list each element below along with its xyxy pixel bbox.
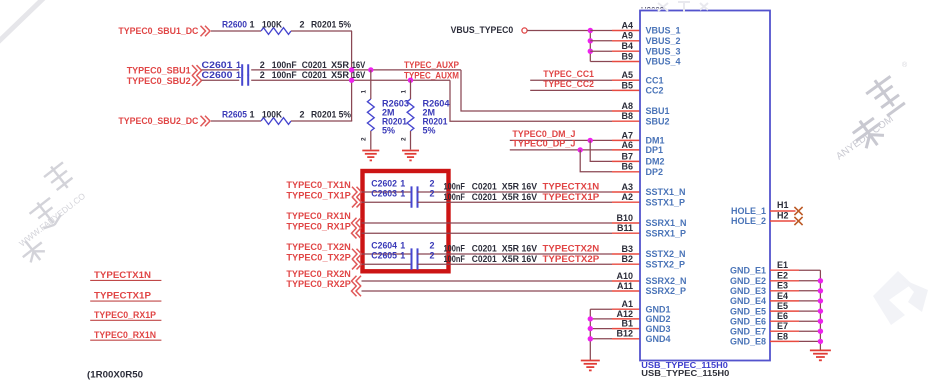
- svg-text:E2: E2: [777, 271, 788, 281]
- svg-text:E5: E5: [777, 301, 788, 311]
- svg-text:VBUS_TYPEC0: VBUS_TYPEC0: [451, 25, 514, 35]
- svg-text:A11: A11: [617, 281, 633, 291]
- ground under R2604: [402, 150, 419, 152]
- pin stub H1 HOLE_1: [770, 210, 796, 212]
- svg-text:100nF: 100nF: [444, 254, 466, 264]
- wire pin B9: [590, 61, 612, 63]
- svg-text:TYPEC0_RX1N: TYPEC0_RX1N: [94, 330, 156, 340]
- wire R2603 from AUX row: [370, 70, 372, 99]
- wire pin B4: [590, 50, 612, 52]
- wire DM to DM2: [590, 140, 612, 161]
- pin stub A5 CC1: [612, 79, 640, 81]
- svg-text:E1: E1: [777, 260, 788, 270]
- svg-text:SSTX1_N: SSTX1_N: [646, 187, 686, 197]
- wire TYPEC_AUXM to SBU2 pin: [450, 80, 612, 121]
- svg-text:B1: B1: [621, 319, 633, 329]
- pin stub H2 HOLE_2: [770, 220, 796, 222]
- pin stub B9 VBUS_4: [612, 61, 640, 63]
- junction AUXP R2600: [349, 67, 354, 72]
- pin stub E6 GND_E6: [770, 320, 799, 322]
- svg-text:2: 2: [430, 240, 435, 250]
- capacitor C2602: [412, 186, 418, 197]
- svg-text:TYPEC_CC1: TYPEC_CC1: [543, 69, 594, 79]
- svg-text:2: 2: [430, 189, 435, 199]
- highlight box around TX capacitors: [363, 171, 449, 271]
- svg-text:2: 2: [300, 19, 305, 29]
- svg-text:X5R: X5R: [502, 244, 520, 254]
- svg-text:GND_E2: GND_E2: [730, 276, 766, 286]
- svg-text:(1R00X0R50: (1R00X0R50: [87, 369, 143, 379]
- svg-text:SSTX1_P: SSTX1_P: [646, 197, 686, 207]
- refdes U2600 clipped at top: [641, 6, 664, 16]
- resistor R2604: [407, 99, 414, 131]
- svg-text:TYPEC0_RX1N: TYPEC0_RX1N: [286, 211, 350, 221]
- svg-text:B4: B4: [621, 41, 633, 51]
- svg-text:X5R: X5R: [502, 254, 520, 264]
- svg-text:X5R: X5R: [331, 60, 350, 70]
- svg-text:SSRX2_N: SSRX2_N: [646, 276, 687, 286]
- wire TYPEC0_RX1N to pin B10: [362, 222, 613, 224]
- pin stub E3 GND_E3: [770, 290, 799, 292]
- GND bus vertical left: [589, 309, 591, 360]
- svg-text:1: 1: [400, 178, 405, 188]
- capacitor C2601: [242, 64, 248, 75]
- svg-text:TYPECTX1N: TYPECTX1N: [543, 182, 600, 192]
- svg-text:B10: B10: [616, 213, 633, 223]
- watermark traces top: [658, 1, 708, 12]
- svg-text:2: 2: [260, 70, 265, 80]
- pin stub A2 SSTX1_P: [612, 201, 640, 203]
- wire C2601 to TYPEC_AUXP: [251, 69, 461, 71]
- svg-text:1: 1: [250, 109, 255, 119]
- wire TYPEC0_RX1P to pin B11: [362, 232, 613, 234]
- svg-text:E6: E6: [777, 311, 788, 321]
- svg-text:C0201: C0201: [472, 192, 497, 202]
- svg-text:GND_E5: GND_E5: [730, 306, 766, 316]
- junction GND_E5: [818, 308, 823, 313]
- svg-text:GND_E8: GND_E8: [730, 337, 766, 347]
- svg-text:A6: A6: [621, 140, 633, 150]
- svg-text:B8: B8: [621, 111, 633, 121]
- svg-text:1: 1: [361, 90, 368, 94]
- wire TYPEC_CC1: [530, 79, 612, 81]
- svg-text:GND3: GND3: [646, 324, 671, 334]
- junction GND_E2: [818, 278, 823, 283]
- svg-text:SSTX2_P: SSTX2_P: [646, 259, 686, 269]
- no-connect X H1: [794, 207, 802, 215]
- svg-text:100nF: 100nF: [444, 182, 466, 192]
- svg-text:C2604: C2604: [371, 240, 397, 250]
- svg-text:GND_E1: GND_E1: [730, 265, 766, 275]
- svg-text:SSRX2_P: SSRX2_P: [646, 286, 687, 296]
- svg-text:SSRX1_N: SSRX1_N: [646, 218, 687, 228]
- svg-text:A8: A8: [621, 101, 633, 111]
- svg-text:VBUS_4: VBUS_4: [646, 57, 681, 67]
- svg-text:100K: 100K: [262, 19, 282, 29]
- svg-text:VBUS_2: VBUS_2: [646, 36, 681, 46]
- pin stub B6 DP2: [612, 171, 640, 173]
- junction AUXM R2604: [408, 78, 413, 83]
- svg-text:C0201: C0201: [472, 182, 497, 192]
- svg-text:16V: 16V: [522, 182, 538, 192]
- svg-text:TYPECTX2N: TYPECTX2N: [543, 244, 600, 254]
- pin stub B7 DM2: [612, 160, 640, 162]
- VBUS bus vertical: [589, 31, 591, 62]
- wire R2604 from AUX row: [410, 80, 412, 99]
- pin stub A4 VBUS_1: [612, 30, 640, 32]
- wire E6 to bus: [799, 320, 820, 322]
- wire TYPEC0_TX1P to C2603: [362, 201, 412, 203]
- junction GND_E7: [818, 329, 823, 334]
- svg-text:A12: A12: [616, 309, 633, 319]
- wire C2604 to pin B3: [418, 253, 613, 255]
- svg-text:X5R: X5R: [502, 182, 520, 192]
- pin stub E4 GND_E4: [770, 300, 799, 302]
- svg-text:1: 1: [400, 251, 405, 261]
- wire C2605 to pin B2: [418, 263, 613, 265]
- pin stub A1 GND1: [612, 308, 640, 310]
- no-connect X H2: [794, 217, 802, 225]
- svg-text:C0201: C0201: [472, 244, 497, 254]
- svg-text:2: 2: [300, 109, 305, 119]
- port circle VBUS_TYPEC0: [522, 28, 527, 33]
- junction GND2: [588, 316, 593, 321]
- pin stub A3 SSTX1_N: [612, 191, 640, 193]
- wire TYPEC0_SBU1 to C2601: [202, 69, 240, 71]
- svg-text:DM1: DM1: [646, 136, 665, 146]
- svg-text:A7: A7: [621, 130, 633, 140]
- svg-text:5%: 5%: [423, 126, 436, 136]
- wire E2 to bus: [799, 280, 820, 282]
- svg-text:HOLE_2: HOLE_2: [731, 216, 766, 226]
- svg-text:SBU1: SBU1: [646, 106, 670, 116]
- pin stub A6 DP1: [612, 149, 640, 151]
- svg-text:B9: B9: [621, 51, 633, 61]
- wire C2600 to TYPEC_AUXM: [251, 79, 450, 81]
- svg-text:VBUS_3: VBUS_3: [646, 46, 681, 56]
- wire TYPEC0_SBU2_DC to R2605: [211, 120, 261, 122]
- svg-text:E3: E3: [777, 281, 788, 291]
- svg-text:DP2: DP2: [646, 167, 664, 177]
- pin stub A9 VBUS_2: [612, 40, 640, 42]
- svg-text:TYPEC0_TX2P: TYPEC0_TX2P: [286, 252, 350, 262]
- svg-text:1: 1: [236, 70, 241, 80]
- svg-text:2: 2: [430, 251, 435, 261]
- wire pin A4: [590, 30, 612, 32]
- port chevron TYPEC0_SBU2: [192, 75, 202, 86]
- svg-text:C0201: C0201: [302, 70, 327, 80]
- svg-text:A9: A9: [621, 31, 633, 41]
- wire VBUS_TYPEC0 to bus: [527, 30, 590, 32]
- wire E1 to bus: [799, 269, 820, 271]
- svg-text:X5R: X5R: [502, 192, 520, 202]
- svg-text:TYPECTX1P: TYPECTX1P: [543, 192, 600, 202]
- svg-text:C2600: C2600: [202, 70, 233, 80]
- watermark chinese characters right: [834, 71, 919, 153]
- svg-text:TYPEC0_TX1N: TYPEC0_TX1N: [286, 180, 350, 190]
- wire TYPEC0_TX1N to C2602: [362, 191, 412, 193]
- svg-text:C2602: C2602: [371, 178, 397, 188]
- svg-text:GND_E4: GND_E4: [730, 296, 766, 306]
- junction GND_E4: [818, 298, 823, 303]
- svg-text:GND4: GND4: [646, 334, 671, 344]
- svg-text:HOLE_1: HOLE_1: [731, 206, 766, 216]
- svg-text:A1: A1: [621, 299, 633, 309]
- underline TYPEC0_RX1N: [90, 339, 161, 341]
- capacitor C2605: [412, 259, 418, 270]
- wire R2600 to AUX junction: [291, 30, 352, 32]
- svg-text:R0201 5%: R0201 5%: [311, 19, 351, 29]
- svg-text:2: 2: [361, 137, 368, 141]
- svg-text:B5: B5: [621, 80, 633, 90]
- wire TYPEC0_TX2P to C2605: [362, 263, 412, 265]
- svg-text:2: 2: [400, 137, 407, 141]
- GND_E bus vertical right: [819, 270, 821, 349]
- svg-text:C2605: C2605: [371, 251, 397, 261]
- svg-text:R0201 5%: R0201 5%: [311, 109, 351, 119]
- svg-text:100nF: 100nF: [272, 60, 297, 70]
- resistor R2603: [367, 99, 374, 131]
- svg-text:TYPEC0_SBU1_DC: TYPEC0_SBU1_DC: [118, 26, 198, 36]
- wire C2603 to pin A2: [418, 201, 613, 203]
- svg-text:SBU2: SBU2: [646, 116, 670, 126]
- pin stub A7 DM1: [612, 139, 640, 141]
- svg-text:C0201: C0201: [472, 254, 497, 264]
- pin stub B8 SBU2: [612, 120, 640, 122]
- svg-text:TYPEC0_SBU2: TYPEC0_SBU2: [127, 76, 191, 86]
- port chevron TYPEC0_TX2N: [352, 249, 362, 260]
- junction VBUS_2: [588, 38, 593, 43]
- underline TYPEC0_RX1P: [90, 319, 161, 321]
- pin stub E8 GND_E8: [770, 340, 799, 342]
- svg-text:TYPEC0_RX1P: TYPEC0_RX1P: [286, 221, 350, 231]
- wire TYPEC0_TX2N to C2604: [362, 253, 412, 255]
- pin stub E2 GND_E2: [770, 280, 799, 282]
- junction AUXM R2605: [349, 78, 354, 83]
- svg-text:16V: 16V: [522, 244, 538, 254]
- ground symbol right: [810, 349, 831, 351]
- svg-text:TYPEC0_RX2N: TYPEC0_RX2N: [286, 269, 350, 279]
- pin stub B3 SSTX2_N: [612, 253, 640, 255]
- svg-text:1: 1: [400, 189, 405, 199]
- svg-text:R2605: R2605: [222, 109, 247, 119]
- svg-text:TYPECTX1P: TYPECTX1P: [94, 291, 151, 301]
- wire E3 to bus: [799, 290, 820, 292]
- svg-text:2: 2: [430, 178, 435, 188]
- svg-text:TYPEC0_TX1P: TYPEC0_TX1P: [286, 190, 350, 200]
- watermark logo bottom-right: [873, 271, 928, 325]
- watermark diagonal streak top-left: [0, 0, 50, 46]
- svg-text:H1: H1: [777, 200, 789, 210]
- svg-text:A4: A4: [621, 20, 633, 30]
- port chevron TYPEC0_SBU1: [192, 65, 202, 76]
- pin stub B12 GND4: [612, 338, 640, 340]
- svg-text:E8: E8: [777, 331, 788, 341]
- svg-text:CC2: CC2: [646, 86, 664, 96]
- svg-text:GND_E7: GND_E7: [730, 326, 766, 336]
- svg-text:1: 1: [400, 240, 405, 250]
- svg-text:C0201: C0201: [302, 60, 327, 70]
- junction DM: [588, 138, 593, 143]
- svg-text:B2: B2: [621, 254, 633, 264]
- capacitor C2604: [412, 248, 418, 259]
- svg-text:100nF: 100nF: [444, 192, 466, 202]
- wire TYPEC0_DM_J: [510, 139, 612, 141]
- svg-text:A5: A5: [621, 70, 633, 80]
- svg-text:H2: H2: [777, 210, 789, 220]
- pin stub E7 GND_E7: [770, 330, 799, 332]
- port chevron TYPEC0_RX1P: [352, 228, 362, 239]
- pin stub B2 SSTX2_P: [612, 263, 640, 265]
- svg-text:TYPEC0_DP_J: TYPEC0_DP_J: [512, 139, 575, 149]
- watermark chinese characters left: [0, 159, 102, 267]
- wire R2603 to ground: [370, 131, 372, 150]
- svg-text:B6: B6: [621, 162, 633, 172]
- svg-text:TYPEC_AUXP: TYPEC_AUXP: [404, 60, 459, 70]
- svg-text:C2603: C2603: [371, 189, 397, 199]
- svg-text:R2600: R2600: [222, 19, 247, 29]
- wire pin A9: [590, 40, 612, 42]
- svg-text:ANYEDU.COM: ANYEDU.COM: [834, 114, 895, 163]
- svg-text:16V: 16V: [522, 192, 538, 202]
- svg-text:TYPEC_CC2: TYPEC_CC2: [543, 79, 594, 89]
- svg-text:5%: 5%: [382, 126, 395, 136]
- svg-text:CC1: CC1: [646, 75, 664, 85]
- underline TYPECTX1N: [90, 279, 161, 281]
- svg-text:100nF: 100nF: [272, 70, 297, 80]
- svg-text:1: 1: [236, 60, 241, 70]
- svg-text:100K: 100K: [262, 109, 282, 119]
- capacitor C2600: [242, 75, 248, 86]
- svg-text:B12: B12: [616, 329, 633, 339]
- svg-text:TYPEC0_RX1P: TYPEC0_RX1P: [94, 310, 156, 320]
- wire TYPEC_CC2: [530, 89, 612, 91]
- ground under R2603: [362, 150, 379, 152]
- svg-text:B7: B7: [621, 151, 633, 161]
- wire vertical R2600/R2605 to AUXP AUXM: [351, 31, 353, 121]
- svg-text:WWW.FANYEDU.CO: WWW.FANYEDU.CO: [17, 190, 87, 248]
- port chevron TYPEC0_TX1N: [352, 187, 362, 198]
- capacitor C2603: [412, 197, 418, 208]
- svg-text:1: 1: [250, 19, 255, 29]
- port chevron TYPEC0_TX2P: [352, 259, 362, 270]
- junction GND_E6: [818, 319, 823, 324]
- svg-text:E7: E7: [777, 321, 788, 331]
- pin stub A11 SSRX2_P: [612, 290, 640, 292]
- pin stub B10 SSRX1_N: [612, 222, 640, 224]
- port chevron TYPEC0_TX1P: [352, 197, 362, 208]
- svg-text:USB_TYPEC_115H0: USB_TYPEC_115H0: [641, 369, 730, 378]
- svg-text:VBUS_1: VBUS_1: [646, 26, 681, 36]
- svg-text:DP1: DP1: [646, 145, 664, 155]
- resistor R2605: [261, 118, 291, 125]
- pin stub B1 GND3: [612, 328, 640, 330]
- wire TYPEC0_SBU1_DC to R2600: [211, 30, 261, 32]
- wire E5 to bus: [799, 310, 820, 312]
- wire E4 to bus: [799, 300, 820, 302]
- svg-text:TYPEC0_SBU2_DC: TYPEC0_SBU2_DC: [118, 116, 198, 126]
- wire pin B1: [590, 328, 612, 330]
- junction VBUS_3: [588, 49, 593, 54]
- svg-text:TYPEC0_SBU1: TYPEC0_SBU1: [127, 65, 191, 75]
- port chevron TYPEC0_RX2P: [352, 286, 362, 297]
- svg-text:A10: A10: [616, 271, 633, 281]
- svg-text:2: 2: [260, 60, 265, 70]
- wire pin A1: [590, 308, 612, 310]
- svg-text:GND2: GND2: [646, 314, 671, 324]
- wire TYPEC0_RX2P to pin A11: [362, 290, 613, 292]
- wire R2605 to vertical: [291, 120, 352, 122]
- junction GND_E8: [818, 339, 823, 344]
- svg-text:B11: B11: [617, 223, 633, 233]
- wire pin A12: [590, 318, 612, 320]
- wire TYPEC_AUXP to SBU1 pin: [461, 70, 612, 111]
- svg-text:100nF: 100nF: [444, 244, 466, 254]
- pin stub B4 VBUS_3: [612, 50, 640, 52]
- svg-text:B3: B3: [621, 244, 633, 254]
- pin stub E1 GND_E1: [770, 269, 799, 271]
- svg-text:X5R: X5R: [331, 70, 350, 80]
- junction AUXP R2603: [368, 67, 373, 72]
- junction VBUS_1: [588, 28, 593, 33]
- wire pin B12: [590, 338, 612, 340]
- pin stub B5 CC2: [612, 89, 640, 91]
- svg-text:E4: E4: [777, 291, 788, 301]
- svg-text:TYPEC0_DM_J: TYPEC0_DM_J: [512, 129, 575, 139]
- pin stub B11 SSRX1_P: [612, 232, 640, 234]
- port chevron TYPEC0_SBU2_DC: [201, 116, 211, 127]
- svg-text:TYPEC0_TX2N: TYPEC0_TX2N: [286, 242, 350, 252]
- wire TYPEC0_RX2N to pin A10: [362, 280, 613, 282]
- svg-text:A2: A2: [621, 192, 633, 202]
- port chevron TYPEC0_RX1N: [352, 218, 362, 229]
- svg-text:A3: A3: [621, 182, 633, 192]
- svg-text:®: ®: [902, 61, 908, 69]
- junction DP: [578, 147, 583, 152]
- pin stub E5 GND_E5: [770, 310, 799, 312]
- pin stub A8 SBU1: [612, 110, 640, 112]
- port chevron TYPEC0_RX2N: [352, 276, 362, 287]
- wire R2604 to ground: [410, 131, 412, 150]
- svg-text:DM2: DM2: [646, 157, 665, 167]
- ground symbol left: [581, 360, 600, 362]
- svg-text:1: 1: [400, 90, 407, 94]
- pin stub A10 SSRX2_N: [612, 280, 640, 282]
- pin stub A12 GND2: [612, 318, 640, 320]
- junction GND3: [588, 326, 593, 331]
- svg-text:C2601: C2601: [202, 60, 233, 70]
- svg-text:TYPECTX1N: TYPECTX1N: [94, 270, 151, 280]
- svg-text:SSRX1_P: SSRX1_P: [646, 228, 687, 238]
- wire DP to DP2: [580, 150, 612, 172]
- wire TYPEC0_SBU2 to C2600: [202, 79, 240, 81]
- wire E8 to bus: [799, 340, 820, 342]
- svg-text:GND_E3: GND_E3: [730, 286, 766, 296]
- wire C2602 to pin A3: [418, 191, 613, 193]
- svg-text:SSTX2_N: SSTX2_N: [646, 249, 686, 259]
- svg-text:TYPEC0_RX2P: TYPEC0_RX2P: [286, 279, 350, 289]
- svg-text:16V: 16V: [522, 254, 538, 264]
- junction GND_E3: [818, 288, 823, 293]
- wire E7 to bus: [799, 330, 820, 332]
- wire TYPEC0_DP_J: [510, 149, 612, 151]
- connector U2600 body: [640, 11, 770, 361]
- svg-text:TYPECTX2P: TYPECTX2P: [543, 254, 600, 264]
- resistor R2600: [261, 28, 291, 35]
- underline TYPECTX1P: [90, 300, 161, 302]
- port chevron TYPEC0_SBU1_DC: [201, 26, 211, 37]
- svg-text:GND1: GND1: [646, 304, 671, 314]
